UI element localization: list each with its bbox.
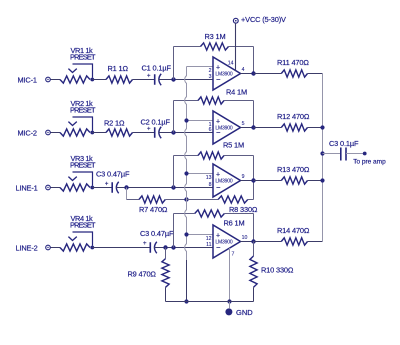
svg-text:R2 1Ω: R2 1Ω	[104, 118, 125, 127]
svg-text:PRESET: PRESET	[70, 52, 96, 61]
svg-text:10: 10	[242, 235, 248, 241]
svg-text:R8 330Ω: R8 330Ω	[229, 205, 258, 214]
svg-text:5: 5	[242, 121, 245, 127]
svg-text:14: 14	[228, 60, 234, 66]
svg-text:3: 3	[209, 74, 212, 80]
svg-text:LM3900: LM3900	[215, 240, 233, 246]
svg-text:13: 13	[206, 175, 212, 181]
svg-text:R14 470Ω: R14 470Ω	[277, 226, 310, 235]
svg-text:MIC-1: MIC-1	[18, 76, 37, 85]
svg-text:R3 1M: R3 1M	[205, 32, 226, 41]
svg-text:PRESET: PRESET	[70, 160, 96, 169]
svg-text:R1 1Ω: R1 1Ω	[108, 64, 129, 73]
svg-text:PRESET: PRESET	[70, 105, 96, 114]
svg-text:To pre amp: To pre amp	[353, 159, 386, 166]
svg-text:R4 1M: R4 1M	[226, 88, 247, 97]
svg-text:7: 7	[232, 251, 235, 257]
svg-text:R11 470Ω: R11 470Ω	[277, 58, 309, 67]
svg-text:+: +	[216, 64, 220, 71]
svg-text:R12 470Ω: R12 470Ω	[277, 112, 310, 121]
svg-text:12: 12	[206, 236, 212, 242]
svg-text:C1 0.1µF: C1 0.1µF	[142, 64, 172, 73]
svg-text:C3 0.47µF: C3 0.47µF	[96, 170, 130, 179]
svg-text:R10 330Ω: R10 330Ω	[261, 265, 294, 274]
svg-text:+: +	[216, 118, 220, 125]
svg-text:LINE-2: LINE-2	[16, 244, 38, 253]
svg-text:+VCC (5-30)V: +VCC (5-30)V	[241, 15, 286, 24]
svg-text:9: 9	[242, 174, 245, 180]
svg-text:R6 1M: R6 1M	[224, 219, 245, 228]
svg-text:R5 1M: R5 1M	[223, 141, 244, 150]
svg-text:LM3900: LM3900	[215, 126, 233, 132]
svg-text:MIC-2: MIC-2	[18, 129, 37, 138]
svg-text:C2 0.1µF: C2 0.1µF	[141, 117, 171, 126]
svg-text:GND: GND	[236, 308, 253, 317]
svg-text:R7 470Ω: R7 470Ω	[139, 205, 168, 214]
svg-text:LINE-1: LINE-1	[16, 184, 38, 193]
svg-text:+: +	[216, 232, 220, 239]
svg-text:6: 6	[209, 127, 212, 133]
svg-text:C3 0.47µF: C3 0.47µF	[140, 229, 174, 238]
svg-text:PRESET: PRESET	[70, 220, 96, 229]
svg-text:LM3900: LM3900	[215, 72, 233, 78]
svg-text:11: 11	[206, 242, 211, 248]
svg-text:C3 0.1µF: C3 0.1µF	[329, 139, 359, 148]
svg-text:+: +	[216, 171, 220, 178]
svg-text:LM3900: LM3900	[215, 179, 233, 185]
svg-text:4: 4	[242, 67, 245, 73]
svg-text:8: 8	[209, 182, 212, 188]
svg-text:R13 470Ω: R13 470Ω	[277, 165, 310, 174]
svg-text:R9 470Ω: R9 470Ω	[128, 269, 157, 278]
svg-text:2: 2	[209, 68, 212, 74]
